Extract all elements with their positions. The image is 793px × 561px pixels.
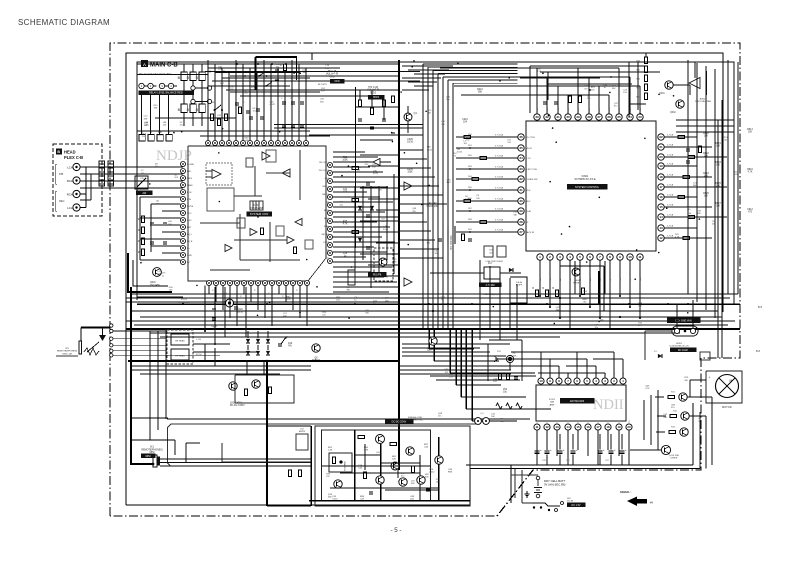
junction transistor Q30	[506, 355, 513, 362]
left bottom wires	[137, 296, 183, 298]
jack RCH playback	[73, 177, 80, 184]
motor M601	[706, 371, 742, 403]
svg-text:10K: 10K	[230, 89, 234, 91]
cluster resistor trio	[496, 403, 502, 409]
svg-text:4.7K: 4.7K	[364, 450, 369, 452]
svg-text:150K: 150K	[407, 172, 413, 174]
driver feed wires	[657, 390, 659, 450]
svg-text:33K: 33K	[513, 214, 517, 216]
svg-text:4.7K: 4.7K	[144, 124, 149, 126]
svg-text:0.022: 0.022	[457, 151, 463, 153]
svg-text:Q602: Q602	[670, 112, 676, 114]
mid right verticals	[479, 260, 481, 340]
svg-text:C205: C205	[407, 139, 413, 141]
PB AMP transistor Q25	[376, 476, 384, 484]
svg-text:MOTOR: MOTOR	[722, 405, 732, 409]
svg-text:Q201: Q201	[150, 282, 156, 284]
transistor Q602	[676, 100, 684, 108]
svg-text:33K: 33K	[346, 290, 350, 292]
transistor Q611	[679, 393, 687, 401]
IC101 internal bits	[246, 158, 253, 167]
svg-text:DRIVE: DRIVE	[671, 458, 678, 460]
aux block right	[700, 352, 710, 360]
jack LCH playback	[73, 163, 80, 170]
svg-text:4-7mA: 4-7mA	[667, 214, 674, 217]
mid lower horizontals	[130, 365, 311, 367]
svg-text:3-7.5mA: 3-7.5mA	[495, 145, 504, 148]
svg-text:33K: 33K	[372, 166, 376, 168]
svg-text:0.022: 0.022	[427, 149, 433, 151]
svg-text:10K: 10K	[491, 416, 495, 418]
svg-text:B-6: B-6	[756, 349, 761, 353]
transistor Q614	[661, 445, 670, 454]
IC601 left pins	[518, 134, 524, 140]
below MCU thick stubs	[598, 271, 600, 305]
plug switch lever	[87, 342, 99, 352]
svg-text:SC75835-XX-XX-E: SC75835-XX-XX-E	[574, 178, 596, 181]
svg-text:OSC: OSC	[187, 220, 192, 222]
svg-text:SCHEMATIC DIAGRAM: SCHEMATIC DIAGRAM	[18, 18, 110, 27]
svg-text:OKD: OKD	[335, 81, 340, 83]
svg-text:3-7.5mA: 3-7.5mA	[495, 166, 504, 169]
svg-text:(C): (C)	[480, 413, 483, 415]
bus lower tails	[428, 330, 430, 349]
svg-text:13: 13	[555, 425, 559, 429]
thick corner left	[128, 253, 172, 292]
wires from plug to heads	[113, 330, 167, 332]
svg-text:4-7mA: 4-7mA	[667, 235, 674, 238]
top strip horizontals	[137, 74, 208, 76]
rail risers	[469, 470, 471, 505]
svg-text:3-7.5mA: 3-7.5mA	[495, 219, 504, 222]
IC601 top pins	[534, 114, 540, 120]
PB AMP transistor Q28	[391, 462, 399, 470]
IC201 bottom pins	[534, 424, 540, 430]
svg-text:DC+ GND VAN: DC+ GND VAN	[675, 320, 692, 323]
svg-text:34: 34	[519, 156, 523, 160]
svg-text:23: 23	[638, 115, 642, 119]
JK1 remote block	[131, 418, 153, 464]
board edge pads	[110, 324, 113, 327]
svg-text:19: 19	[617, 425, 621, 429]
svg-text:PB R: PB R	[187, 178, 193, 180]
svg-text:11: 11	[638, 255, 642, 259]
svg-text:XTAL 4-0(A)(L)(=T): XTAL 4-0(A)(L)(=T)	[483, 293, 501, 296]
PB AMP inner wires	[322, 465, 431, 467]
PB AMP left sub box	[329, 453, 352, 472]
svg-text:18: 18	[659, 175, 663, 179]
pair wires to MCU zone	[274, 124, 423, 126]
plug diode triangle	[99, 335, 106, 341]
svg-text:56K: 56K	[427, 113, 431, 115]
svg-text:PB OUT L: PB OUT L	[319, 162, 330, 164]
svg-text:STRUCTURE: STRUCTURE	[178, 302, 191, 304]
PB AMP thick internal verticals	[354, 430, 356, 501]
inner frame wire	[137, 62, 734, 305]
svg-text:56K: 56K	[365, 312, 369, 314]
IC601 top components	[543, 101, 547, 103]
left mesh horizontals	[140, 196, 180, 198]
top bus verticals to IC pins	[207, 60, 209, 140]
svg-text:56K: 56K	[302, 72, 306, 74]
svg-text:C40: C40	[288, 343, 293, 345]
dc-dc converter pair Q3 Q4	[229, 382, 237, 390]
IC601 left pin parts	[464, 135, 471, 138]
svg-text:RCH: RCH	[67, 192, 73, 196]
svg-text:R206: R206	[407, 169, 413, 171]
svg-text:3-7.5mA: 3-7.5mA	[495, 208, 504, 211]
svg-text:EQ L: EQ L	[187, 234, 193, 236]
below MCU transistor	[572, 268, 580, 276]
PB AMP transistor Q22	[406, 447, 414, 455]
svg-text:OKD2: OKD2	[370, 92, 377, 94]
svg-text:20: 20	[659, 155, 663, 159]
svg-text:0.022: 0.022	[270, 104, 276, 106]
battery feed wires	[521, 470, 523, 503]
svg-text:25: 25	[617, 115, 621, 119]
svg-text:30: 30	[519, 199, 523, 203]
svg-text:10: 10	[628, 255, 632, 259]
PB AMP bottom rail	[309, 500, 470, 502]
bank trimmer circles	[191, 86, 195, 90]
thick branch topleft	[255, 57, 257, 90]
svg-text:11: 11	[535, 425, 538, 429]
svg-text:56K: 56K	[478, 92, 483, 94]
svg-text:TP2 C-08: TP2 C-08	[368, 87, 379, 89]
amp triangles right	[404, 182, 412, 190]
svg-text:56K: 56K	[320, 101, 324, 103]
svg-text:C31: C31	[343, 189, 348, 191]
horizontal bus bundle	[130, 293, 738, 295]
svg-text:R CH: R CH	[196, 354, 202, 356]
bus junction dots	[398, 303, 400, 305]
svg-text:4.7K: 4.7K	[465, 198, 470, 200]
IC201 top pins	[538, 378, 544, 384]
svg-text:15: 15	[576, 425, 580, 429]
svg-text:C-B& TEST LBLR: C-B& TEST LBLR	[485, 261, 503, 263]
svg-text:56K: 56K	[684, 380, 688, 382]
dc jack wires	[645, 330, 672, 332]
IC601 bottom pins	[537, 254, 543, 260]
svg-text:PB OUT R: PB OUT R	[319, 170, 330, 172]
wire mesh under IC101	[208, 286, 210, 294]
svg-text:18: 18	[606, 425, 610, 429]
JK1 frame wires	[131, 439, 175, 441]
transistor Q612	[681, 412, 689, 420]
bus crossing dots	[182, 303, 184, 305]
svg-text:S1-1: S1-1	[211, 102, 217, 104]
svg-text:REC: REC	[59, 199, 65, 203]
svg-text:0.022: 0.022	[158, 135, 164, 137]
svg-text:4.7K: 4.7K	[675, 236, 680, 238]
IC101 internal opamp C	[262, 152, 270, 160]
IC601 top wires bend	[440, 67, 537, 69]
svg-text:33K: 33K	[663, 417, 667, 419]
arrow marks	[281, 337, 286, 344]
diode D601	[658, 354, 662, 358]
head plex wires	[80, 166, 183, 168]
phone plug symbol JP2	[79, 341, 82, 354]
IC201 bottom caps	[534, 450, 539, 452]
svg-text:16: 16	[659, 195, 663, 199]
svg-text:C-2V: C-2V	[526, 158, 532, 160]
IC601 right pins	[658, 134, 664, 140]
svg-text:MON: MON	[324, 210, 330, 212]
svg-text:MUTE: MUTE	[187, 206, 194, 208]
svg-text:3-7.5mA: 3-7.5mA	[495, 176, 504, 179]
svg-text:MINI: MINI	[145, 455, 150, 458]
svg-text:MUTE: MUTE	[299, 431, 306, 433]
svg-text:NC: NC	[187, 262, 191, 264]
svg-text:Q10: Q10	[427, 349, 432, 352]
IC601 right resistors	[678, 135, 685, 138]
jack RCH rec	[73, 190, 80, 197]
svg-text:REC/PB: REC/PB	[373, 275, 382, 277]
svg-text:B: B	[57, 150, 60, 154]
svg-text:PIEZO BUZZER: PIEZO BUZZER	[695, 101, 711, 103]
thick stub to frame	[311, 53, 313, 60]
thick mid line	[128, 360, 399, 362]
svg-text:VDD: VDD	[526, 190, 531, 192]
svg-text:TUNER SW: TUNER SW	[526, 179, 539, 181]
svg-text:EQ R: EQ R	[187, 241, 193, 243]
svg-text:RELAY LEVEL BALANCE RESI: RELAY LEVEL BALANCE RESI	[149, 92, 183, 95]
svg-text:10K: 10K	[748, 132, 753, 134]
svg-text:19: 19	[659, 164, 663, 168]
svg-text:3-7.5mA: 3-7.5mA	[495, 198, 504, 201]
junction dots top	[236, 63, 238, 65]
svg-text:100K: 100K	[342, 160, 348, 162]
sprinkle junction dots	[413, 60, 415, 62]
S1-1 switch	[215, 105, 221, 110]
svg-text:VCC: VCC	[187, 213, 192, 215]
svg-text:10K: 10K	[381, 221, 385, 223]
svg-text:33: 33	[519, 167, 523, 171]
bottom rail wires	[466, 464, 693, 466]
IC201 top wire bends	[511, 351, 541, 353]
svg-text:4.7K: 4.7K	[392, 262, 397, 264]
svg-text:B-5: B-5	[758, 305, 763, 309]
svg-text:Q601: Q601	[659, 93, 665, 95]
svg-text:L CH: L CH	[196, 339, 201, 341]
svg-text:14: 14	[566, 425, 570, 429]
svg-text:3-7.5mA: 3-7.5mA	[495, 229, 504, 232]
svg-text:33K: 33K	[612, 88, 616, 90]
jack LCH rec	[73, 204, 80, 211]
svg-text:BIAS: BIAS	[324, 225, 330, 228]
svg-text:30: 30	[566, 115, 570, 119]
svg-text:4-7mA: 4-7mA	[667, 194, 674, 197]
svg-text:R35: R35	[343, 221, 348, 223]
svg-text:PC: PC	[326, 258, 329, 260]
svg-text:56K: 56K	[435, 253, 439, 255]
connector block HEAD PLEX C-B	[53, 144, 102, 216]
svg-text:DC-DC CONV: DC-DC CONV	[392, 422, 407, 424]
right components column	[352, 166, 359, 169]
PB AMP transistor Q21	[376, 435, 385, 444]
left wire grid under bar	[141, 95, 143, 134]
battery DRY CELL	[536, 476, 540, 480]
mesh right of IC101	[333, 151, 365, 153]
svg-text:33K: 33K	[144, 118, 148, 120]
svg-text:56K: 56K	[693, 185, 697, 187]
svg-text:0.022: 0.022	[373, 173, 379, 175]
JK1 wires right	[160, 458, 311, 460]
right cluster parts tc4	[358, 100, 361, 107]
svg-text:P-GND: P-GND	[187, 164, 194, 166]
svg-text:4.7K: 4.7K	[343, 224, 348, 226]
cluster caps	[498, 373, 501, 380]
below MCU resistor pairs	[535, 290, 538, 297]
svg-text:EJECT SW: EJECT SW	[526, 169, 538, 171]
svg-text:DC JACK: DC JACK	[678, 349, 689, 352]
svg-text:C116: C116	[237, 309, 243, 311]
PB AMP inner box	[322, 430, 431, 501]
svg-text:16: 16	[586, 425, 590, 429]
thick left vertical long	[130, 287, 132, 464]
svg-text:PB HEAD: PB HEAD	[175, 355, 185, 358]
svg-text:1.2K: 1.2K	[328, 450, 333, 452]
svg-text:10: 10	[539, 379, 543, 383]
svg-text:2-B-0k: 2-B-0k	[516, 282, 523, 284]
IC101 inner wires	[234, 195, 262, 197]
plug zigzag resistor	[84, 348, 99, 355]
svg-text:31: 31	[519, 188, 523, 192]
svg-text:26: 26	[607, 115, 611, 119]
above MCU extra wires	[530, 65, 648, 67]
IC101 internal opamp A	[206, 163, 232, 185]
piezo buzzer BZ601	[689, 78, 700, 89]
resistor row left low	[139, 135, 145, 142]
wires pre-DIP	[470, 343, 510, 345]
svg-text:REC: REC	[526, 201, 531, 203]
resistor bank RA1	[181, 72, 187, 81]
svg-text:10K: 10K	[168, 224, 172, 226]
svg-text:33K: 33K	[411, 483, 415, 485]
svg-text:12: 12	[659, 236, 663, 240]
svg-text:ALC: ALC	[325, 177, 330, 180]
svg-text:3-7.5mA: 3-7.5mA	[495, 187, 504, 190]
caps near diodes	[278, 343, 282, 345]
transistor Q201	[153, 268, 162, 277]
svg-text:PLAY: PLAY	[526, 210, 532, 213]
svg-text:-: -	[709, 396, 710, 400]
svg-text:RCH: RCH	[67, 179, 73, 183]
svg-text:2SC2458: 2SC2458	[150, 285, 160, 287]
svg-text:33K: 33K	[154, 108, 158, 110]
IC101 inner extra parts	[237, 218, 245, 228]
svg-text:M: M	[730, 379, 733, 383]
svg-text:L IN: L IN	[187, 199, 191, 201]
svg-text:28: 28	[519, 220, 523, 224]
double circle jacks	[475, 418, 482, 425]
svg-text:SYSTEM CON: SYSTEM CON	[250, 212, 269, 216]
svg-text:29: 29	[576, 115, 580, 119]
svg-text:4.7K: 4.7K	[218, 69, 223, 71]
svg-text:4-7mA: 4-7mA	[667, 163, 674, 166]
svg-text:32: 32	[519, 177, 523, 181]
svg-text:SIGNAL:: SIGNAL:	[620, 490, 631, 494]
transistor Q601	[665, 81, 673, 89]
IC101 internal block D	[266, 150, 276, 162]
svg-text:20: 20	[627, 425, 631, 429]
svg-text:IC101: IC101	[181, 299, 188, 301]
top cluster caps right	[282, 101, 286, 103]
motor feed wires	[687, 396, 712, 398]
svg-text:10K: 10K	[385, 300, 389, 302]
svg-text:10K: 10K	[500, 421, 504, 423]
svg-text:DC 1.5V: DC 1.5V	[571, 504, 580, 507]
svg-text:TP1 TP2: TP1 TP2	[427, 203, 437, 205]
svg-text:C52: C52	[503, 389, 508, 391]
svg-text:33K: 33K	[513, 356, 517, 358]
svg-text:MUTE: MUTE	[526, 148, 533, 150]
svg-text:R IN: R IN	[187, 192, 192, 194]
svg-text:DET: DET	[187, 227, 192, 229]
svg-text:+: +	[709, 375, 711, 379]
svg-text:IC201: IC201	[549, 399, 556, 401]
resistor bank RA2	[181, 104, 187, 113]
IC101 internal arrow	[282, 169, 290, 177]
svg-text:R616: R616	[747, 169, 753, 171]
wires toward DIP	[399, 365, 511, 367]
right bracket cluster	[510, 277, 527, 303]
svg-text:PB HEAD: PB HEAD	[175, 340, 185, 343]
mid cluster parts	[238, 107, 241, 114]
svg-text:33K: 33K	[425, 477, 429, 479]
svg-text:21: 21	[659, 145, 663, 149]
svg-text:4-7mA: 4-7mA	[667, 174, 674, 177]
svg-text:15: 15	[659, 205, 663, 209]
svg-text:HEAD: HEAD	[64, 150, 76, 155]
svg-text:NDII: NDII	[593, 397, 624, 413]
svg-text:NDJP: NDJP	[156, 148, 192, 164]
svg-text:3V (AA) (IEC,R6): 3V (AA) (IEC,R6)	[544, 482, 566, 486]
diode array D11-D13	[246, 339, 250, 343]
PB head blocks	[167, 330, 193, 364]
svg-text:36: 36	[519, 135, 523, 139]
svg-text:4.7K: 4.7K	[537, 71, 542, 73]
svg-text:10/16: 10/16	[407, 142, 413, 144]
IC101 left pins	[181, 162, 186, 167]
svg-text:56K: 56K	[245, 140, 249, 142]
motor wires	[690, 379, 706, 381]
svg-text:4.7K: 4.7K	[645, 388, 650, 390]
xtal parts	[461, 234, 464, 241]
svg-text:AGC: AGC	[324, 217, 329, 220]
resistor stack R60x	[644, 57, 647, 64]
JK1 connector	[153, 455, 157, 467]
thick feed into amp	[266, 361, 268, 506]
long verticals right half	[559, 261, 561, 294]
svg-text:GND: GND	[187, 255, 192, 257]
svg-text:27: 27	[519, 230, 523, 234]
svg-text:4-7mA: 4-7mA	[667, 204, 674, 207]
svg-text:10/16: 10/16	[237, 312, 243, 314]
right top mesh	[676, 119, 734, 121]
bottomleft verticals	[204, 286, 206, 331]
transistor Q1	[404, 113, 412, 121]
svg-text:0.022: 0.022	[332, 499, 338, 501]
svg-text:OKD: OKD	[330, 76, 335, 78]
REC PB black label	[368, 272, 386, 277]
svg-text:(A)(L)(=T-P): (A)(L)(=T-P)	[367, 89, 380, 92]
diode triangles	[358, 206, 362, 210]
svg-text:TP1 TP2 OSC: TP1 TP2 OSC	[451, 235, 453, 250]
svg-text:(A)(L)(=T-P): (A)(L)(=T-P)	[326, 73, 339, 76]
svg-text:4-7mA: 4-7mA	[667, 134, 674, 137]
junction transistor Q103	[226, 299, 234, 307]
